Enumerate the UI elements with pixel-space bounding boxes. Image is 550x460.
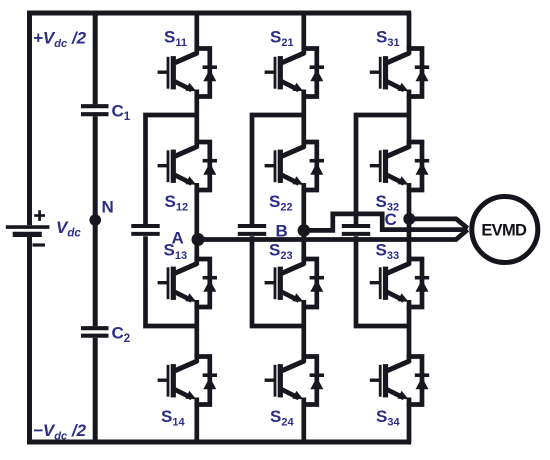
- wire top rail +Vdc/2 bus: [27, 11, 411, 16]
- transistor S32 IGBT with diode: [370, 140, 429, 192]
- motor EVMD circle: [472, 197, 538, 263]
- svg-text:B: B: [276, 222, 288, 241]
- capacitor C1 plates: [81, 106, 109, 114]
- wire capacitor bus bottom segment: [93, 338, 98, 442]
- wire phase C output to EVMD: [409, 219, 467, 228]
- wire leg1 S14 to bottom rail: [194, 403, 199, 442]
- node B junction dot: [298, 224, 311, 237]
- wire leg1 S13 to S14: [194, 306, 199, 359]
- transistor S12 IGBT with diode: [158, 140, 217, 192]
- transistor S33 IGBT with diode: [370, 257, 429, 309]
- svg-text:−Vdc /2: −Vdc /2: [33, 421, 87, 443]
- battery plus sign: [34, 210, 45, 221]
- wire leg3 S31 to S32: [407, 95, 412, 144]
- wire leg3 S34 to bottom rail: [407, 403, 412, 442]
- wire bottom rail -Vdc/2 bus: [27, 440, 411, 445]
- transistor S13 IGBT with diode: [158, 257, 217, 309]
- transistor S11 IGBT with diode: [158, 46, 217, 98]
- svg-text:Vdc: Vdc: [56, 218, 81, 240]
- wire leg2 S24 to bottom rail: [301, 403, 306, 442]
- wire leg2 rail to S21: [301, 13, 306, 50]
- svg-text:S22: S22: [269, 192, 293, 214]
- svg-text:S14: S14: [161, 407, 185, 429]
- battery minus sign: [33, 243, 46, 246]
- svg-text:C2: C2: [112, 324, 131, 346]
- svg-text:C1: C1: [112, 102, 131, 124]
- wire leg3 S33 to S34: [407, 306, 412, 359]
- wire leg2 S22 to S23: [301, 189, 306, 261]
- svg-text:A: A: [172, 229, 184, 248]
- svg-text:S11: S11: [164, 28, 187, 50]
- battery Vdc positive plate: [6, 225, 50, 229]
- wire phase A output to EVMD: [197, 230, 467, 240]
- node C junction dot: [403, 213, 415, 225]
- wire leg1 flying-capacitor upper branch: [146, 115, 197, 224]
- capacitor leg2 flying capacitor plates: [238, 226, 266, 234]
- svg-text:S23: S23: [269, 241, 293, 263]
- wire left DC bus upper segment: [27, 11, 32, 226]
- wire leg2 S21 to S22: [301, 95, 306, 144]
- wire leg2 flying-capacitor upper branch: [252, 115, 304, 224]
- svg-text:N: N: [102, 198, 114, 217]
- transistor S24 IGBT with diode: [265, 354, 324, 406]
- svg-text:S33: S33: [376, 241, 400, 263]
- capacitor leg3 flying capacitor plates: [342, 226, 370, 234]
- wire leg3 flying-capacitor lower branch: [356, 236, 409, 326]
- node A junction dot: [192, 233, 205, 246]
- svg-text:S31: S31: [376, 28, 400, 50]
- transistor S14 IGBT with diode: [158, 354, 217, 406]
- wire leg2 flying-capacitor lower branch: [252, 236, 304, 326]
- capacitor C2 plates: [81, 328, 109, 336]
- transistor S22 IGBT with diode: [265, 140, 324, 192]
- wire phase B output to EVMD with jog: [304, 214, 468, 231]
- node N junction dot: [89, 214, 101, 226]
- wire capacitor bus top segment: [93, 13, 98, 104]
- wire leg1 S11 to S12: [194, 95, 199, 144]
- svg-text:S12: S12: [165, 192, 189, 214]
- svg-text:S34: S34: [376, 407, 400, 429]
- wire leg3 rail to S31: [407, 13, 412, 50]
- transistor S34 IGBT with diode: [370, 354, 429, 406]
- transistor S31 IGBT with diode: [370, 46, 429, 98]
- svg-text:EVMD: EVMD: [481, 221, 527, 239]
- wire leg1 flying-capacitor lower branch: [146, 236, 197, 326]
- svg-text:+Vdc /2: +Vdc /2: [33, 29, 87, 51]
- battery Vdc negative plate: [13, 232, 42, 237]
- wire leg1 S12 to S13: [194, 189, 199, 261]
- svg-text:S21: S21: [270, 28, 294, 50]
- wire leg3 S32 to S33: [407, 189, 412, 261]
- svg-text:C: C: [385, 210, 397, 229]
- capacitor leg1 flying capacitor plates: [131, 226, 159, 234]
- wire left DC bus lower segment: [27, 237, 32, 445]
- transistor S23 IGBT with diode: [265, 257, 324, 309]
- svg-text:S24: S24: [270, 407, 294, 429]
- transistor S21 IGBT with diode: [265, 46, 324, 98]
- wire leg2 S23 to S24: [301, 306, 306, 359]
- wire leg1 rail to S11: [194, 13, 199, 50]
- wire leg3 flying-capacitor upper branch: [356, 115, 409, 224]
- wire capacitor bus middle segment: [93, 116, 98, 326]
